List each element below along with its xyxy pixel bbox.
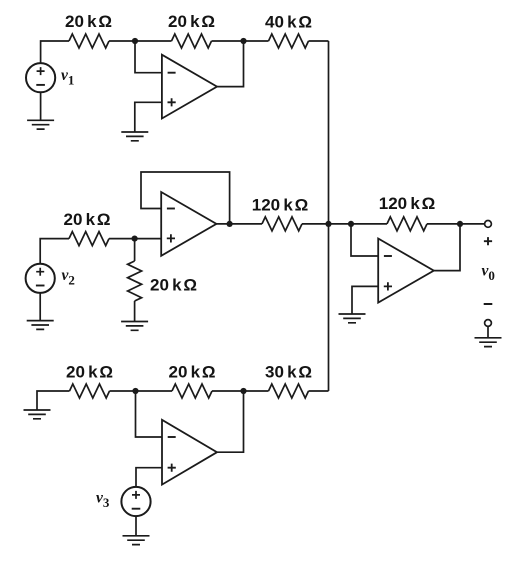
wire: node I to R10 <box>244 390 269 392</box>
label - (output polarity) <box>484 303 493 305</box>
resistor R9 20 kOhm (op3 feedback) <box>172 384 212 398</box>
wire: lower terminal to ground <box>487 326 489 337</box>
wire: stage-3 rail left end to ground <box>37 391 70 410</box>
svg-text:120kΩ: 120kΩ <box>252 196 308 215</box>
wire: node A down to op1 inverting input <box>135 41 162 73</box>
wire: R1 to node A <box>109 40 135 42</box>
svg-text:v3: v3 <box>96 490 110 511</box>
node G: output node <box>457 221 463 227</box>
ground (below v1) <box>27 120 54 129</box>
resistor R6 120 kOhm <box>262 217 302 231</box>
resistor R3 40 kOhm <box>269 34 309 48</box>
node B: junction R2/R3/op1 output <box>240 38 246 44</box>
ground (op1 noninverting) <box>121 132 148 141</box>
wire: node A to R2 <box>135 40 172 42</box>
wire: node B to R3 <box>244 40 269 42</box>
summing bus (vertical net) <box>328 41 330 391</box>
node E: summing bus junction <box>325 221 331 227</box>
wire: op2 output to R6 <box>216 223 262 225</box>
resistor R1 20 kOhm (v1 input) <box>69 34 109 48</box>
op-amp U4 (stage 3) <box>162 420 217 485</box>
wire: op3 noninverting input to v3 top <box>136 468 162 487</box>
resistor R4 20 kOhm (v2 input) <box>69 232 109 246</box>
wire: op1 output up to node B <box>217 41 244 87</box>
wire: node H to R9 <box>136 390 173 392</box>
node F: junction to op4 inverting branch <box>348 221 354 227</box>
node H: junction R8/R9/op3 inverting <box>132 388 138 394</box>
svg-text:40kΩ: 40kΩ <box>265 13 312 32</box>
svg-text:30kΩ: 30kΩ <box>265 363 312 382</box>
wire: R6 to summing node E <box>302 223 329 225</box>
wire: R4 to node C <box>109 238 135 240</box>
wire: op4 output up to node G <box>434 224 460 271</box>
svg-text:20kΩ: 20kΩ <box>168 12 215 31</box>
ground (below lower terminal) <box>475 338 502 347</box>
wire: stage-2 input rail from v2 top to R4 <box>40 239 69 264</box>
wire: R8 to node H <box>110 390 136 392</box>
wire: op1 noninverting input to ground <box>135 102 162 132</box>
node C: junction R4/R5/op2 noninverting <box>132 236 138 242</box>
wire: R2 to node B <box>212 40 244 42</box>
wire: node C down to R5 <box>134 239 136 261</box>
wire: R7 to node G <box>427 223 460 225</box>
ground (below v3) <box>123 536 150 545</box>
svg-text:v1: v1 <box>61 67 74 88</box>
wire: op4 noninverting input to ground <box>352 286 378 314</box>
wire: node G to output terminal <box>460 223 484 225</box>
label + (output polarity) <box>484 237 492 245</box>
wire: op2 feedback loop output to inverting input <box>141 172 230 224</box>
resistor R10 30 kOhm <box>269 384 309 398</box>
wire: node F down to op4 inverting input <box>351 224 378 256</box>
svg-text:20kΩ: 20kΩ <box>65 12 112 31</box>
wire: op3 output up to node I <box>217 391 244 452</box>
wire: R9 to node I <box>212 390 244 392</box>
node I: junction R9/R10/op3 output <box>240 388 246 394</box>
wire: R3 to summing bus top corner <box>309 40 329 42</box>
svg-text:v2: v2 <box>62 267 75 288</box>
svg-text:20kΩ: 20kΩ <box>63 210 110 229</box>
wire: stage-1 input rail from v1 top to R1 <box>41 41 69 63</box>
op-amp U3 (output inverting amp) <box>378 239 434 303</box>
op-amp U1 <box>162 55 217 119</box>
op-amp U2 (voltage follower) <box>161 192 216 256</box>
node D: junction op2 output / feedback <box>227 221 233 227</box>
svg-text:20kΩ: 20kΩ <box>168 363 215 382</box>
ground (below R5) <box>121 322 148 331</box>
wire: v3 bottom to ground <box>135 516 137 536</box>
wire: node F to R7 <box>351 223 387 225</box>
node A: junction R1/R2/op1 inverting <box>132 38 138 44</box>
terminal: output + (open circle) <box>485 221 492 228</box>
resistor R7 120 kOhm (op4 feedback) <box>387 217 427 231</box>
wire: v2 bottom to ground <box>39 293 41 321</box>
resistor R8 20 kOhm (stage 3 input) <box>70 384 110 398</box>
svg-text:120kΩ: 120kΩ <box>379 194 435 213</box>
svg-text:20kΩ: 20kΩ <box>66 363 113 382</box>
resistor R2 20 kOhm (op1 feedback) <box>172 34 212 48</box>
svg-text:v0: v0 <box>482 262 495 283</box>
ground (below v2) <box>27 321 54 330</box>
voltage source v2 <box>26 264 55 293</box>
voltage source v1 <box>26 63 55 92</box>
wire: node H down to op3 inverting input <box>136 391 163 437</box>
wire: node C to op2 noninverting input <box>135 238 162 240</box>
wire: v1 bottom to ground <box>40 92 42 120</box>
voltage source v3 <box>121 487 150 516</box>
resistor R5 20 kOhm (vertical, to ground) <box>128 261 142 301</box>
wire: R10 to summing bus bottom corner <box>309 390 329 392</box>
ground (op4 noninverting) <box>339 314 366 323</box>
ground (stage-3 left) <box>24 410 51 419</box>
wire: node E to node F <box>329 223 352 225</box>
svg-text:20kΩ: 20kΩ <box>150 276 197 295</box>
terminal: output - (open circle) <box>485 320 492 327</box>
wire: R5 bottom to ground <box>134 301 136 322</box>
